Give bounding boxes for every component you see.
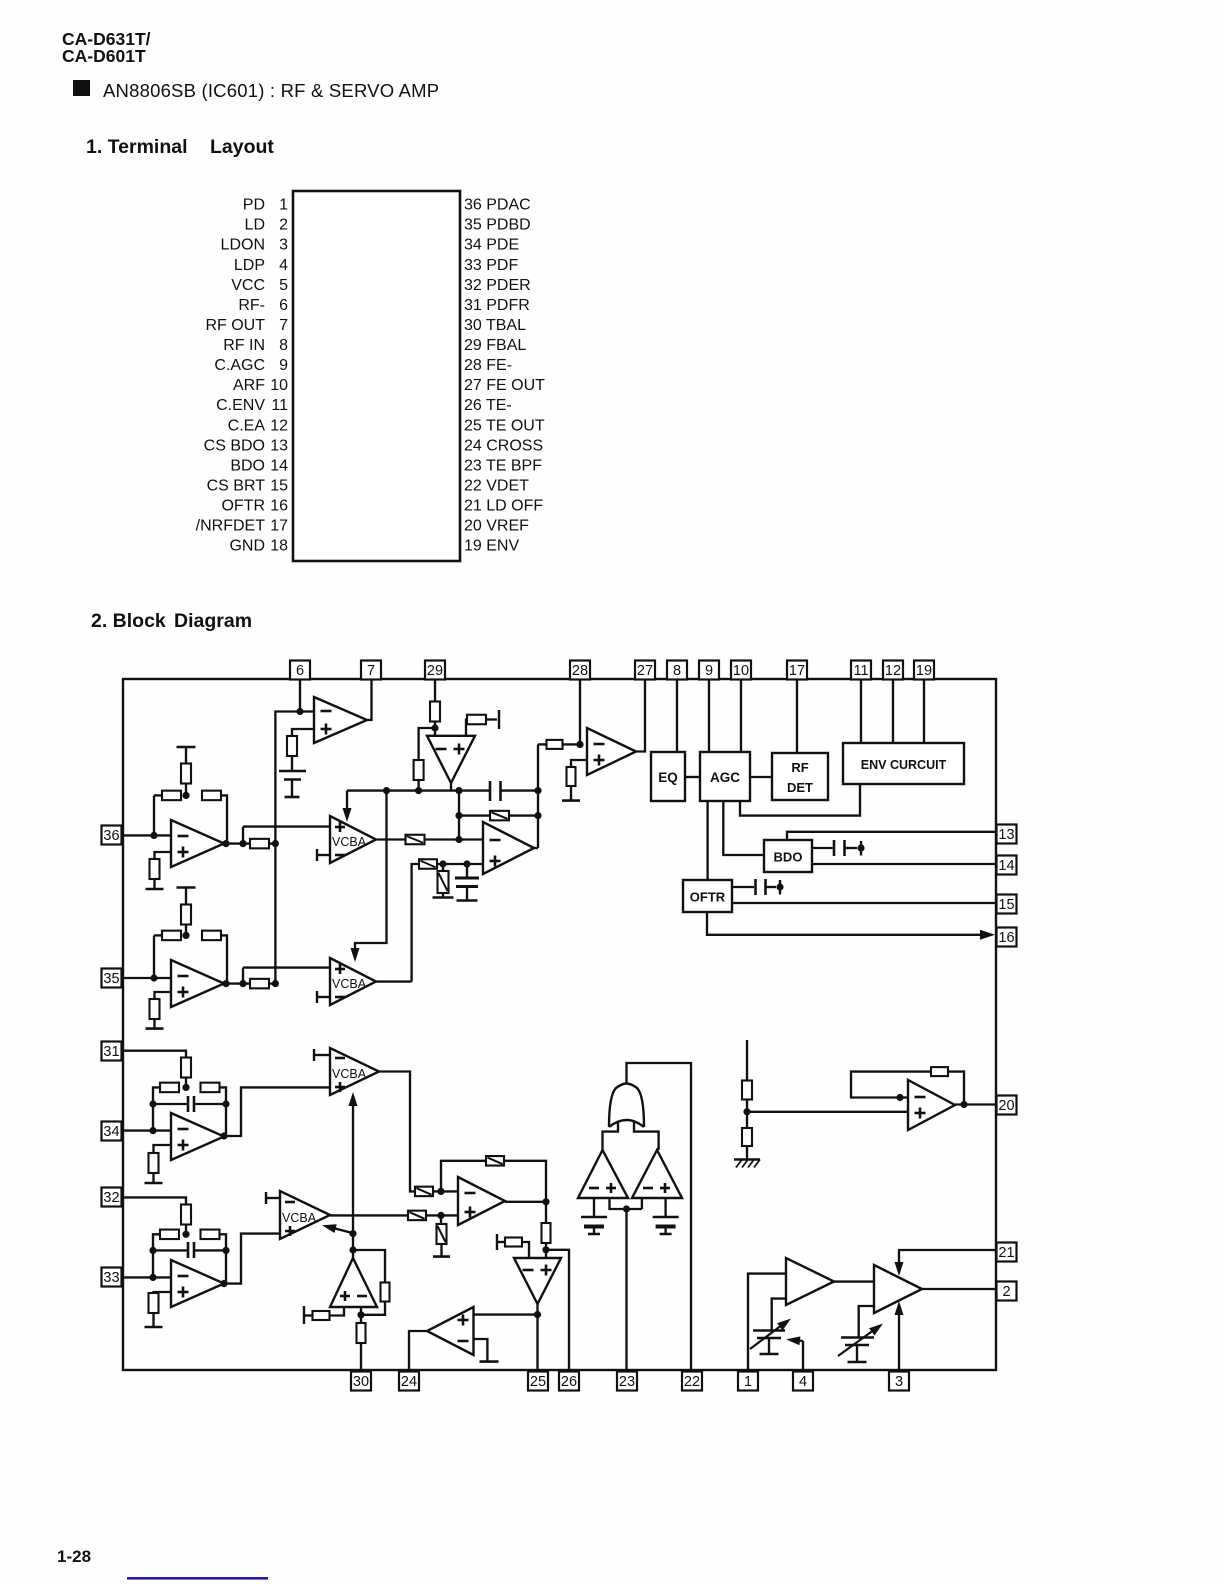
wire U10 output to pin 24 [409, 1331, 427, 1372]
wire resistor to U8 noninverting [426, 1214, 458, 1216]
pin box 23 (bottom) [617, 1372, 637, 1391]
svg-text:PD: PD [243, 197, 265, 214]
svg-text:C.ENV: C.ENV [216, 397, 265, 414]
pin 22 label VDET [464, 477, 529, 494]
resistor U3 feedback (slashed) [490, 811, 509, 821]
pin 25 label TE OUT [464, 417, 545, 434]
wire pin 17 to RF DET [796, 680, 798, 753]
resistor pin29 series [430, 702, 440, 722]
resistor pin30 series [357, 1323, 366, 1343]
wire horizontal rail to VCBA amps [347, 789, 459, 791]
wire U13 right leg [664, 1198, 666, 1216]
svg-text:1-28: 1-28 [57, 1547, 91, 1566]
wire U4 output [224, 842, 251, 844]
resistor U7 feedback a [160, 1230, 179, 1240]
wire U10 minus to ground [474, 1339, 488, 1362]
node U11 output [357, 1311, 364, 1318]
VCBA amp A1 [330, 816, 376, 863]
wire resistor to U3 output node [538, 743, 547, 745]
resistor U4 plus ground [150, 859, 160, 879]
pin box 1 (bottom) [738, 1372, 758, 1391]
op-amp U10 (CROSS, points left) [427, 1307, 474, 1355]
wire to divider node [746, 1100, 748, 1112]
svg-text:AN8806SB (IC601) : RF & SERVO: AN8806SB (IC601) : RF & SERVO AMP [103, 80, 439, 101]
pin box 26 (bottom) [559, 1372, 579, 1391]
svg-text:22 VDET: 22 VDET [464, 477, 529, 494]
pin box 2 (right) [997, 1282, 1017, 1301]
op-amp U7 (pin33 PDF amp) [171, 1260, 224, 1307]
ground U1 bias [285, 780, 300, 798]
footer rule [127, 1577, 268, 1580]
wire pin 11 to ENV [860, 680, 862, 743]
node control line upper [349, 1230, 356, 1237]
pin 14 label BDO [230, 457, 288, 474]
svg-text:GND: GND [229, 538, 265, 555]
pin box 22 (bottom) [682, 1372, 702, 1391]
svg-text:23: 23 [619, 1374, 635, 1390]
svg-text:23 TE BPF: 23 TE BPF [464, 457, 542, 474]
svg-text:VCBA: VCBA [332, 977, 367, 991]
wire dome stem left [603, 1122, 619, 1150]
wire U6 feedback right riser [219, 1087, 226, 1136]
wire U4 output to A1 plus [243, 825, 330, 827]
resistor U9 bias [497, 1238, 522, 1247]
pin box 36 (left) [102, 826, 122, 845]
VCBA amp A4 [280, 1191, 330, 1239]
svg-text:C.EA: C.EA [228, 417, 266, 434]
pin 32 label PDER [464, 277, 531, 294]
wire BDO to pin 13 [787, 832, 997, 840]
op-amp U16 (laser driver) [786, 1258, 834, 1305]
svg-text:28: 28 [572, 663, 588, 679]
wire VCBA A1 output [376, 838, 406, 840]
wire U3 inverting node vertical [458, 791, 460, 840]
node comparator output [623, 1205, 630, 1212]
svg-text:15: 15 [998, 897, 1014, 913]
wire AGC to ENV [740, 784, 860, 816]
resistor U4 feedback b [202, 791, 221, 801]
svg-text:LD: LD [245, 217, 265, 234]
svg-text:24: 24 [401, 1374, 417, 1390]
svg-text:2. Block: 2. Block [91, 610, 166, 632]
wire to pin 30 [360, 1343, 362, 1372]
pin 27 label FE OUT [464, 377, 545, 394]
resistor U11 feedback [381, 1283, 390, 1302]
svg-text:ENV CURCUIT: ENV CURCUIT [861, 758, 947, 772]
wire divider to U14 plus [747, 1111, 908, 1113]
capacitor OFTR output [732, 879, 776, 895]
svg-text:10: 10 [270, 377, 288, 394]
resistor U14 feedback [931, 1067, 948, 1076]
svg-text:29 FBAL: 29 FBAL [464, 337, 526, 354]
wire dome to pin 22 [627, 1063, 692, 1372]
svg-text:27 FE OUT: 27 FE OUT [464, 377, 545, 394]
wire pin 1 to U16 [748, 1274, 786, 1372]
svg-text:20: 20 [998, 1098, 1014, 1114]
node U6 input [149, 1127, 156, 1134]
svg-text:8: 8 [673, 663, 681, 679]
wire OFTR to pin 15 [732, 902, 997, 904]
RF DET block [772, 753, 828, 800]
svg-text:33 PDF: 33 PDF [464, 257, 518, 274]
wire U11 left input [330, 1307, 344, 1316]
node U7 cap row left [149, 1247, 156, 1254]
wire A2 output riser to plus row [412, 864, 419, 982]
pin 24 label CROSS [464, 437, 543, 454]
svg-text:5: 5 [279, 277, 288, 294]
pin box 8 (top) [667, 661, 687, 680]
pin 15 label CS BRT [207, 477, 288, 494]
capacitor U7 bridge [153, 1242, 226, 1258]
pin box 25 (bottom) [528, 1372, 548, 1391]
wire U8 output [505, 1201, 546, 1203]
wire pin 3 control arrow [895, 1301, 904, 1372]
svg-text:VCBA: VCBA [332, 1067, 367, 1081]
pin box 6 (top) [290, 661, 310, 680]
svg-text:28 FE-: 28 FE- [464, 357, 512, 374]
op-amp U17 (LD output) [874, 1265, 922, 1313]
pin 13 label CS BDO [204, 437, 288, 454]
wire U13 inner leg [641, 1198, 643, 1209]
node U5 input [150, 974, 157, 981]
resistor U5 bias top [181, 905, 191, 936]
op-amp U1 (RF summing) [314, 697, 367, 743]
node bus/U4 output [272, 840, 279, 847]
wire U5 feedback top [154, 934, 162, 936]
resistor U15 plus ground [567, 767, 576, 786]
ground U6 plus [145, 1173, 163, 1183]
wire control line between nodes [352, 1234, 354, 1250]
wire U4 feedback left riser [153, 795, 155, 835]
gain control arrow (vertical) [349, 1092, 358, 1234]
wire U8 output down [545, 1202, 547, 1223]
section title AN8806SB (IC601) : RF & SERVO AMP [103, 80, 439, 101]
pin 23 label TE BPF [464, 457, 542, 474]
node junction at pin6 input [296, 708, 303, 715]
wire U7 feedback left riser [153, 1234, 161, 1277]
svg-text:2: 2 [1002, 1284, 1010, 1300]
wire EQ to AGC [685, 776, 700, 778]
wire resistor to U3 noninverting [437, 863, 483, 865]
svg-text:30: 30 [353, 1374, 369, 1390]
tap bar A2 minus [317, 991, 330, 1003]
wire pin 31 to network [121, 1051, 186, 1058]
resistor U8 inverting (slashed) [415, 1187, 433, 1197]
op-amp U2 (FBAL, inverted) [427, 736, 475, 783]
pin box 32 (left) [102, 1188, 122, 1207]
wire U16 output to U17 [834, 1280, 874, 1282]
svg-text:/NRFDET: /NRFDET [196, 518, 266, 535]
svg-text:VCC: VCC [231, 277, 265, 294]
op-amp U3 [483, 822, 534, 874]
svg-text:2: 2 [279, 217, 288, 234]
wire A3 output down to U8 [379, 1072, 415, 1192]
wire pin 34 input [121, 1129, 171, 1131]
wire resistor to H-rail [417, 780, 419, 791]
svg-text:25: 25 [530, 1374, 546, 1390]
wire comparator output to pin 23 [625, 1209, 627, 1372]
trimmer capacitor CT2 [838, 1324, 883, 1363]
node U7 input [149, 1274, 156, 1281]
pin box 28 (top) [570, 661, 590, 680]
wire AGC to OFTR [706, 801, 708, 880]
header model numbers CA-D631T / CA-D601T [62, 29, 151, 66]
svg-text:36 PDAC: 36 PDAC [464, 197, 531, 214]
node rail/VCBA2 branch [383, 787, 390, 794]
op-amp U11 (TBAL) [330, 1258, 377, 1307]
resistor pin28 to U3 output [547, 740, 563, 749]
svg-text:CS BRT: CS BRT [207, 477, 266, 494]
pin box 14 (right) [997, 856, 1017, 875]
node feedback res right [534, 812, 541, 819]
wire U6 feedback left riser [153, 1087, 161, 1130]
heading 1. Terminal Layout [86, 136, 274, 158]
wire U12 inner leg [610, 1198, 642, 1209]
resistor VREF upper [742, 1081, 752, 1100]
svg-text:DET: DET [787, 780, 813, 795]
tap bar U5 bias [177, 888, 196, 906]
svg-text:14: 14 [998, 858, 1014, 874]
op-amp U9 (TE out, inverted) [514, 1258, 561, 1304]
pin box 17 (top) [787, 661, 807, 680]
svg-text:21: 21 [998, 1245, 1014, 1261]
svg-text:9: 9 [279, 357, 288, 374]
wire U7 plus input [154, 1292, 172, 1294]
node U8 noninverting [437, 1212, 444, 1219]
pin 20 label VREF [464, 518, 529, 535]
wire U1 noninverting input [292, 729, 314, 736]
pin 12 label C.EA [228, 417, 288, 434]
svg-text:CA-D601T: CA-D601T [62, 46, 146, 66]
svg-text:29: 29 [427, 663, 443, 679]
wire pin 8 to EQ [676, 680, 678, 752]
wire U15 plus input [571, 760, 587, 767]
wire resistor to U8 inverting [433, 1190, 458, 1192]
resistor U3 plus to ground (slashed) [438, 864, 449, 893]
svg-text:13: 13 [270, 437, 288, 454]
svg-text:6: 6 [279, 297, 288, 314]
ground U7 plus [145, 1313, 163, 1327]
resistor U7 plus ground [149, 1293, 159, 1313]
pin 11 label C.ENV [216, 397, 288, 414]
block diagram border [123, 679, 996, 1370]
capacitor U6 bridge [153, 1096, 226, 1112]
OFTR block [683, 880, 732, 912]
node U7 feedback center [182, 1231, 189, 1238]
wire U4 plus input [155, 852, 172, 859]
node BDO cap [857, 841, 864, 856]
wire U7 output riser [224, 1234, 280, 1284]
wire A4 output [330, 1214, 408, 1216]
wire U9 output to U10 [474, 1313, 538, 1315]
node U6 feedback center [182, 1084, 189, 1091]
svg-text:10: 10 [733, 663, 749, 679]
node U8 output [542, 1198, 549, 1205]
pin 36 label PDAC [464, 197, 531, 214]
pin 21 label LD OFF [464, 498, 543, 515]
wire node to pin 26 [546, 1250, 569, 1372]
AGC block [700, 752, 750, 801]
svg-text:17: 17 [789, 663, 805, 679]
node U4 input [150, 832, 157, 839]
ground VREF (hatched) [734, 1146, 760, 1168]
svg-text:35: 35 [103, 971, 119, 987]
svg-text:1: 1 [744, 1374, 752, 1390]
resistor U7 feedback b [201, 1230, 220, 1240]
resistor U5 plus ground [150, 999, 160, 1019]
op-amp U8 [458, 1177, 505, 1225]
wire U5 output riser to A2 [242, 968, 244, 984]
wire pin 29 stub [434, 680, 436, 702]
VCBA amp A2 [330, 958, 376, 1005]
svg-text:C.AGC: C.AGC [214, 357, 265, 374]
op-amp U4 (pin36 PDAC amp) [171, 820, 224, 867]
wire U4 output riser to A1 [242, 827, 244, 844]
pin 7 label RF OUT [205, 317, 288, 334]
pin box 34 (left) [102, 1122, 122, 1141]
wire U8 feedback [441, 1161, 486, 1192]
pin 33 label PDF [464, 257, 518, 274]
wire AGC to BDO [723, 801, 764, 855]
svg-text:VCBA: VCBA [332, 835, 367, 849]
pin 18 label GND [229, 538, 288, 555]
wire U3 output [534, 847, 538, 849]
wire U9 output [536, 1304, 538, 1372]
svg-text:11: 11 [853, 663, 868, 679]
wire node into U2 [434, 728, 436, 736]
pin 3 label LDON [221, 237, 289, 254]
ground U15 plus [562, 786, 580, 801]
node U4 feedback center [182, 792, 189, 799]
capacitor BDO output [812, 840, 857, 856]
node U14 output [960, 1101, 967, 1108]
wire resistor to node [434, 721, 436, 728]
resistor U2 reference [467, 715, 486, 725]
wire resistor to node [185, 1077, 187, 1087]
node bus end/U5 output [272, 980, 279, 987]
wire pin 10 to AGC [740, 680, 742, 752]
resistor pin32 series [181, 1205, 191, 1225]
capacitor U3 feedback [459, 781, 538, 801]
tap bar A3 minus [314, 1049, 330, 1061]
pin 8 label RF IN [223, 337, 288, 354]
op-amp U5 (pin35 PDBD amp) [171, 960, 224, 1007]
wire bias to U9 top [522, 1242, 529, 1258]
resistor pin31 series [181, 1058, 191, 1078]
wire U11 feedback [353, 1250, 385, 1282]
wire pin 33 input [121, 1276, 171, 1278]
pin box 7 (top) [361, 661, 381, 680]
svg-text:21 LD OFF: 21 LD OFF [464, 498, 543, 515]
pin box 30 (bottom) [351, 1372, 371, 1391]
footer page number 1-28 [57, 1547, 91, 1566]
svg-text:AGC: AGC [710, 770, 740, 785]
tap bar A1 minus [317, 849, 330, 861]
node rail/pin29 resistor [415, 787, 422, 794]
wire U5 output to bus [268, 982, 275, 984]
svg-text:BDO: BDO [230, 457, 265, 474]
window detector dome [609, 1084, 644, 1128]
node U15 inverting input [576, 741, 583, 748]
wire dome stem right [634, 1122, 659, 1150]
svg-text:33: 33 [103, 1270, 119, 1286]
comparator U13 (right) [632, 1150, 682, 1198]
node U6 output [220, 1132, 227, 1139]
node U6 cap row right [222, 1100, 229, 1107]
svg-text:34: 34 [103, 1124, 119, 1140]
wire U14 feedback right [948, 1072, 964, 1105]
section marker square [73, 80, 90, 96]
wire to reference tap [486, 718, 497, 720]
node U14 minus [896, 1094, 903, 1101]
pin 34 label PDE [464, 237, 519, 254]
wire pin28/feedback vertical [537, 744, 539, 848]
wire arrow into VCBA A1 [343, 791, 352, 822]
pin box 35 (left) [102, 969, 122, 988]
wire U5 riser to A2 plus [243, 966, 330, 968]
pin box 27 (top) [635, 661, 655, 680]
wire pin 36 input [121, 834, 171, 836]
resistor U4 bias top [181, 764, 191, 796]
pin 35 label PDBD [464, 217, 531, 234]
node U7 output [220, 1280, 227, 1287]
pin box 10 (top) [731, 661, 751, 680]
svg-text:12: 12 [270, 417, 288, 434]
pin box 33 (left) [102, 1268, 122, 1287]
svg-text:6: 6 [296, 663, 304, 679]
wire U6 output riser [224, 1087, 330, 1136]
svg-text:RF-: RF- [238, 297, 265, 314]
wire U17 output to pin 2 [922, 1288, 996, 1290]
svg-text:EQ: EQ [658, 770, 678, 785]
resistor U6 feedback a [160, 1083, 179, 1093]
capacitor-ground U13 [653, 1217, 679, 1234]
node U5 output [222, 980, 229, 987]
svg-text:26 TE-: 26 TE- [464, 397, 512, 414]
pin 31 label PDFR [464, 297, 530, 314]
node feedback res left [455, 812, 462, 819]
ground U3 plus capacitor [457, 887, 478, 901]
tap bar U2 reference [498, 710, 500, 729]
svg-text:19 ENV: 19 ENV [464, 538, 519, 555]
node control line lower [349, 1246, 356, 1253]
wire AGC to RF DET [750, 776, 772, 778]
pin box 29 (top) [425, 661, 445, 680]
svg-text:9: 9 [705, 663, 713, 679]
pin box 20 (right) [997, 1096, 1017, 1115]
node pin29 input [431, 724, 438, 731]
wire U8 feedback right [504, 1161, 546, 1202]
resistor U6 plus ground [149, 1153, 159, 1173]
pin box 24 (bottom) [399, 1372, 419, 1391]
wire node to lower resistor [419, 728, 435, 760]
svg-text:11: 11 [271, 397, 288, 414]
node U3 plus/capacitor [463, 860, 470, 867]
wire U2 output to H-rail [450, 783, 452, 791]
resistor U3 input (slashed) [406, 835, 425, 845]
pin 10 label ARF [233, 377, 288, 394]
heading 2. Block Diagram [91, 610, 252, 632]
ground U8 noninv [433, 1244, 450, 1257]
pin box 3 (bottom) [889, 1372, 909, 1391]
svg-text:RF: RF [791, 760, 808, 775]
svg-text:31 PDFR: 31 PDFR [464, 297, 530, 314]
svg-text:16: 16 [270, 498, 288, 515]
wire U5 feedback right riser [221, 935, 227, 983]
wire pin 6 stub [299, 680, 301, 712]
resistor VREF lower [742, 1112, 752, 1146]
capacitor-ground U12 [581, 1217, 607, 1234]
